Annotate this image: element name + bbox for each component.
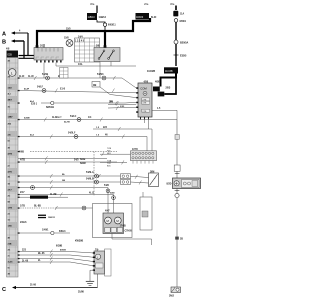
fuse 11C/2B	[147, 67, 178, 73]
wire from B to connector strip	[19, 41, 41, 58]
svg-text:4L-M: 4L-M	[28, 75, 33, 78]
wire row E35-1	[31, 101, 136, 109]
wire down right column	[175, 44, 177, 66]
svg-text:E35 1: E35 1	[31, 104, 38, 106]
svg-text:54/1B: 54/1B	[42, 73, 49, 76]
svg-text:11A: 11A	[180, 13, 184, 16]
svg-text:B20/5A: B20/5A	[180, 42, 189, 45]
svg-text:11C/3B: 11C/3B	[165, 71, 173, 73]
svg-text:54/5LF: 54/5LF	[68, 132, 76, 135]
svg-text:1 2 3 4 5: 1 2 3 4 5	[75, 40, 85, 43]
svg-text:C7H05: C7H05	[125, 231, 133, 233]
svg-text:15/5: 15/5	[66, 29, 71, 31]
svg-text:54/LF: 54/LF	[37, 86, 44, 89]
svg-text:1/40/1: 1/40/1	[42, 229, 49, 232]
svg-text:54/D: 54/D	[110, 192, 115, 195]
svg-text:15/8: 15/8	[64, 38, 69, 40]
wire rows to connector 7/9	[18, 249, 94, 266]
svg-text:17/6B: 17/6B	[120, 226, 127, 228]
wire row 1/7B	[18, 206, 93, 211]
connector 7/9	[93, 249, 111, 276]
wire module bottom row b	[93, 120, 149, 151]
wire row 4/7B	[18, 158, 117, 165]
wire cluster pin drop	[43, 63, 45, 78]
svg-text:2B: 2B	[180, 239, 183, 241]
svg-text:4L4F: 4L4F	[24, 88, 30, 91]
wiper motor assembly 4/47	[93, 204, 133, 238]
wire row 54/5LF	[18, 132, 93, 139]
svg-text:4/7D: 4/7D	[8, 171, 13, 174]
svg-text:BL-06: BL-06	[38, 253, 45, 255]
svg-text:11B/20: 11B/20	[136, 17, 144, 19]
connector 17/15	[131, 149, 157, 163]
power bus 15-feed	[37, 18, 150, 48]
svg-text:3L06: 3L06	[8, 262, 14, 264]
wire module bottom row a	[93, 127, 152, 151]
svg-text:54/5/3: 54/5/3	[97, 73, 104, 76]
svg-text:11B/12: 11B/12	[99, 17, 107, 19]
svg-text:20a: 20a	[144, 2, 149, 6]
svg-text:6/63/11: 6/63/11	[108, 25, 116, 27]
wire row 54/6LB	[18, 178, 121, 185]
svg-text:1/3: 1/3	[8, 220, 11, 222]
svg-text:31/86: 31/86	[78, 292, 85, 294]
node A arrow	[2, 30, 28, 38]
svg-text:14B7: 14B7	[8, 116, 14, 119]
connector grid table 14/4	[75, 36, 100, 63]
svg-text:B: B	[2, 40, 6, 46]
svg-text:06: 06	[8, 268, 10, 270]
svg-text:6/63/1: 6/63/1	[180, 21, 187, 23]
wire relay pin drop	[99, 62, 101, 79]
wire splice bar	[18, 192, 68, 199]
svg-text:C: C	[2, 287, 6, 293]
strip pin ticks	[18, 77, 20, 262]
svg-text:A35B: A35B	[24, 117, 30, 120]
label stack 7/2B	[100, 148, 131, 156]
svg-text:54/D: 54/D	[104, 184, 109, 187]
svg-text:22B: 22B	[8, 244, 12, 246]
svg-text:6/83.3: 6/83.3	[59, 231, 66, 233]
module 4/56 (COM)	[136, 80, 152, 119]
wire rows into DIM	[121, 174, 149, 185]
svg-text:11B/10: 11B/10	[88, 17, 96, 19]
svg-text:KW39B: KW39B	[75, 241, 83, 243]
wire dashed vertical link	[93, 152, 95, 197]
wire row N4/B	[18, 156, 107, 160]
svg-text:22: 22	[8, 166, 10, 168]
svg-text:3/2: 3/2	[8, 107, 11, 109]
svg-text:4/7B: 4/7B	[20, 159, 25, 162]
svg-text:A: A	[2, 32, 6, 38]
svg-text:1/7B: 1/7B	[8, 208, 13, 210]
lamp symbol 15/8	[64, 38, 73, 47]
svg-text:4L.D: 4L.D	[89, 192, 94, 195]
svg-text:4/6: 4/6	[8, 60, 11, 63]
wire from motor assembly down	[112, 234, 152, 246]
label stack 7/3A	[100, 159, 127, 167]
wire row 1/4 long	[18, 108, 177, 122]
svg-text:54/LC: 54/LC	[70, 115, 77, 118]
instrument cluster 5/1	[34, 44, 63, 63]
svg-text:3N/2: 3N/2	[169, 296, 175, 298]
svg-text:4L1F: 4L1F	[19, 75, 25, 78]
wire from A to connector strip	[19, 33, 41, 56]
svg-text:2/8: 2/8	[8, 77, 11, 79]
node B arrow	[2, 39, 24, 45]
wire row 54/6LC	[18, 184, 110, 213]
svg-text:54/6LB: 54/6LB	[86, 178, 94, 181]
wire row 54/LF	[18, 86, 136, 93]
node C arrow	[2, 274, 98, 293]
svg-text:2/17: 2/17	[20, 192, 25, 194]
svg-text:E2B: E2B	[8, 55, 13, 57]
node E35/5	[174, 55, 188, 58]
ground 31/86	[78, 270, 94, 293]
svg-text:1/7B: 1/7B	[20, 206, 25, 208]
wire dashed row	[19, 151, 117, 154]
svg-text:6/39B: 6/39B	[56, 246, 63, 248]
splice marks	[20, 215, 46, 224]
svg-text:2/2: 2/2	[8, 196, 11, 198]
connector 24/2	[169, 287, 181, 298]
wire row 84/6	[18, 193, 115, 214]
fuse 11B/10 column	[87, 2, 116, 30]
svg-text:4/7B: 4/7B	[8, 153, 13, 156]
inline connector DB	[92, 82, 136, 98]
svg-text:6L2F: 6L2F	[151, 17, 157, 19]
svg-text:4/47: 4/47	[105, 210, 110, 213]
wire row 1/4L	[56, 62, 136, 67]
wire row 1/40/1	[18, 229, 83, 248]
svg-text:COM: COM	[140, 86, 147, 90]
wire fan to module pins	[108, 102, 136, 111]
svg-text:N35/1B: N35/1B	[46, 107, 54, 109]
connector strip E2B (left bus)	[6, 48, 18, 278]
svg-text:N4/M: N4/M	[80, 162, 86, 165]
wire row 54/1B	[18, 73, 136, 88]
svg-text:2/39.6: 2/39.6	[20, 222, 27, 224]
svg-text:4/6B: 4/6B	[19, 151, 24, 154]
svg-text:E1-8: E1-8	[60, 89, 66, 91]
svg-text:3L-06: 3L-06	[22, 260, 29, 262]
node B20/5A	[174, 40, 189, 45]
strip extra text specks	[8, 60, 12, 276]
svg-text:1/4L: 1/4L	[78, 63, 83, 66]
svg-text:54/6LA: 54/6LA	[86, 171, 94, 174]
svg-text:8/2D: 8/2D	[167, 184, 172, 186]
svg-text:4L-8B: 4L-8B	[50, 193, 57, 196]
svg-text:AL7B: AL7B	[64, 121, 70, 124]
wire vertical to module 8/22	[174, 120, 180, 179]
node below 8/22	[175, 189, 180, 198]
svg-text:1B0/11: 1B0/11	[48, 217, 56, 219]
connector table small	[60, 68, 69, 79]
connector nubs at box tops	[36, 45, 107, 47]
svg-text:11C/2B: 11C/2B	[147, 70, 155, 73]
svg-text:54/5: 54/5	[74, 159, 79, 162]
svg-text:49/3B: 49/3B	[60, 248, 66, 251]
wire row 54/6LA	[18, 171, 121, 178]
svg-text:DB: DB	[93, 85, 97, 87]
fuse 11A column	[170, 2, 187, 40]
wire bus to relay 3/8	[104, 31, 106, 48]
svg-text:4/5B: 4/5B	[155, 81, 160, 84]
svg-text:4L1: 4L1	[8, 93, 11, 96]
svg-text:2/53: 2/53	[166, 87, 171, 90]
rheostat DIM	[149, 171, 159, 186]
svg-text:30a: 30a	[170, 2, 175, 6]
svg-text:31: 31	[8, 256, 10, 258]
switch housing 17/6	[140, 192, 152, 230]
wire long down right	[175, 198, 183, 287]
svg-text:SB: SB	[62, 180, 65, 182]
extra wire labels	[24, 88, 125, 252]
fuse 11B/20 column	[136, 2, 158, 20]
svg-text:E35/5: E35/5	[180, 55, 187, 58]
svg-text:30a: 30a	[90, 2, 95, 6]
svg-text:31-06: 31-06	[30, 285, 37, 287]
module 8/22	[167, 178, 201, 189]
svg-text:BL-8B: BL-8B	[34, 206, 41, 208]
wire fuse 11C to module 4/56 pins	[153, 74, 176, 97]
svg-text:5/1: 5/1	[8, 141, 11, 143]
svg-text:2/6: 2/6	[8, 250, 11, 252]
relay 3/8	[94, 46, 120, 62]
